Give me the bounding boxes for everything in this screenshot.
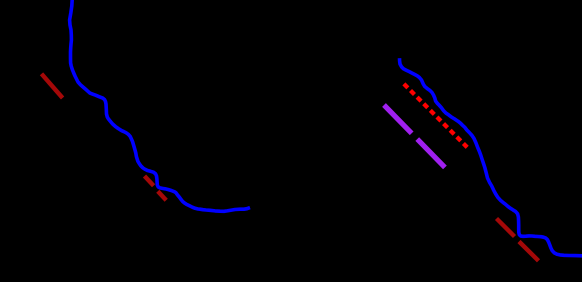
left panel red slope segment (upper dash) [42,74,63,98]
right panel blue curve [400,58,582,256]
left panel red slope segment (lower dash, part 1) [145,176,154,186]
right panel red dotted line [404,84,467,147]
right panel magenta dashed line [384,105,446,168]
right panel dark red dashed segment (upper dash) [497,219,515,237]
left panel red slope segment (lower dash, part 2) [158,191,166,200]
right panel dark red dashed segment (lower dash) [519,242,539,261]
left panel blue curve [70,0,250,211]
